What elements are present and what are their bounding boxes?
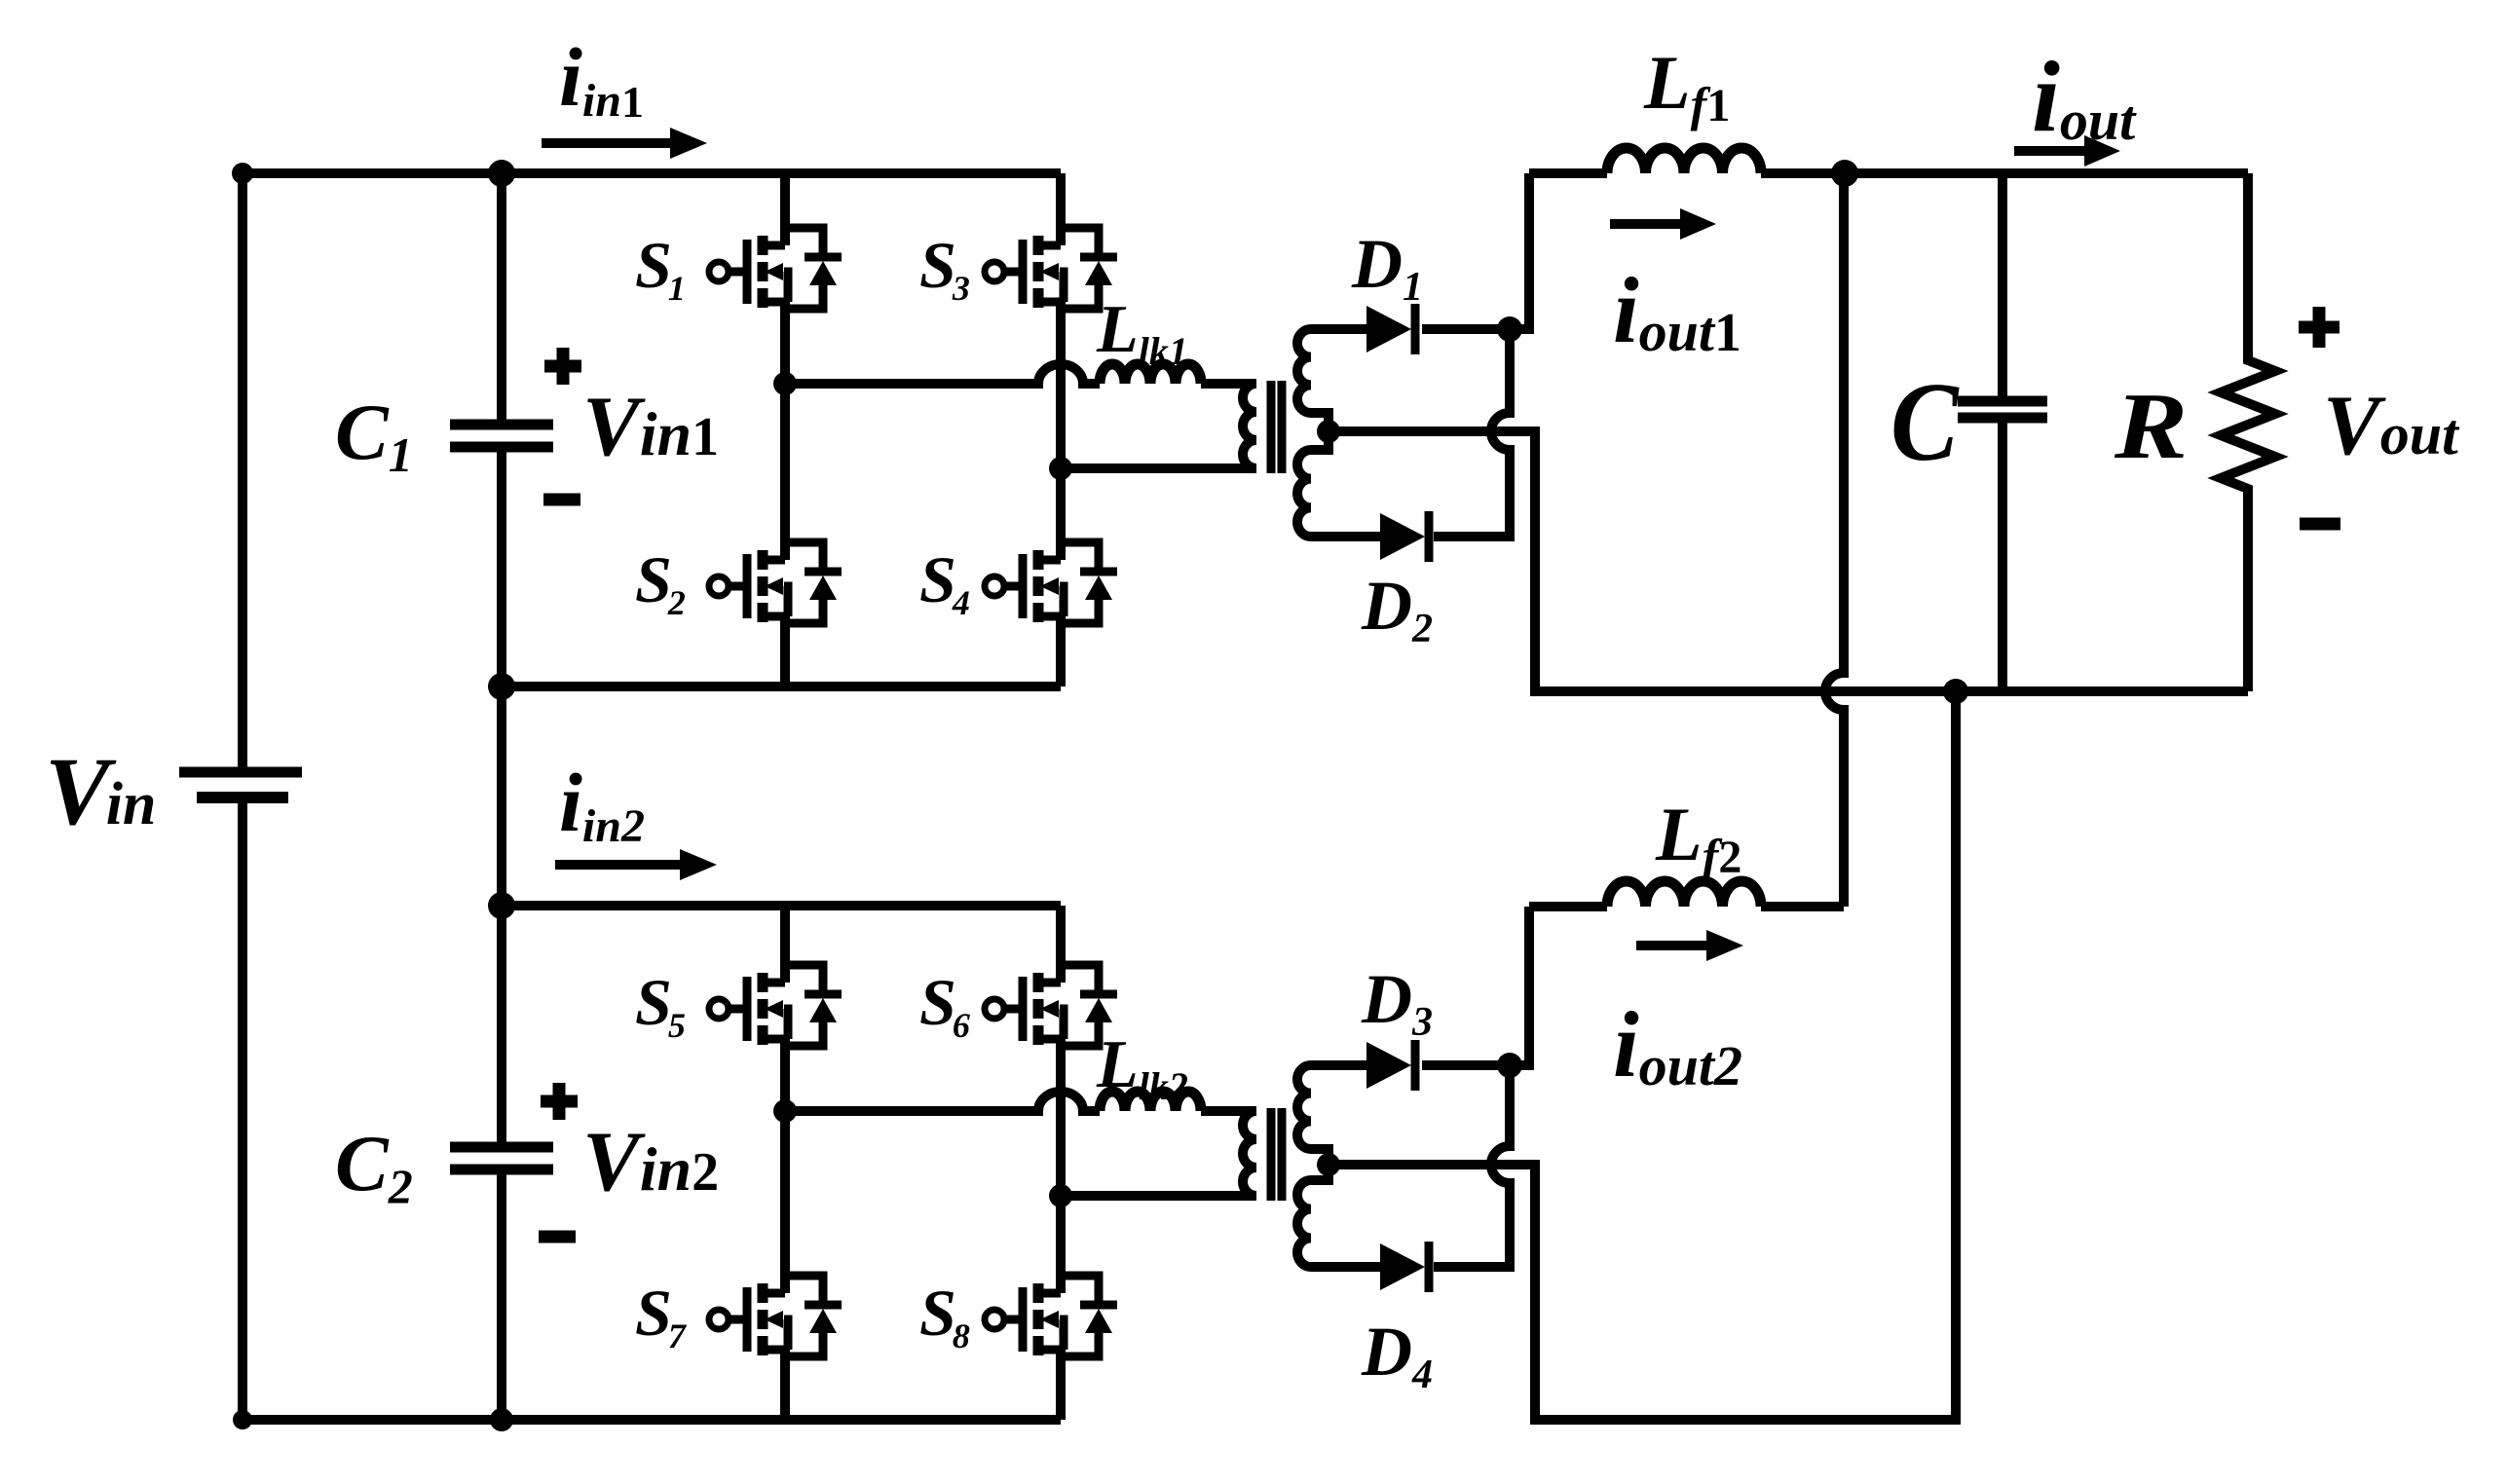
wire center tap2 return to output rail: [1329, 691, 1956, 1420]
node C1 bottom bridge1: [488, 673, 515, 700]
wire bridge2 midleft with hop: [785, 1092, 1100, 1111]
wire left rail top and input top rail: [243, 173, 1061, 769]
transformer T2 core: [1271, 1108, 1282, 1201]
wire D1 to junction and up to Lf1: [1422, 173, 1529, 329]
transformer T1 secondary bottom winding: [1297, 427, 1329, 537]
minus C2: [539, 1231, 576, 1243]
wire D2 up to D1 junction with hop: [1434, 329, 1510, 537]
wire secondary1 bottom to D2: [1311, 532, 1380, 541]
transformer T1 primary winding: [1243, 384, 1256, 468]
wire bridge1 left leg: [780, 173, 790, 686]
wire bridge2 right leg: [1056, 906, 1066, 1420]
transformer T2 secondary bottom winding: [1297, 1163, 1329, 1267]
wire Llk1 to transformer: [1201, 379, 1256, 389]
diode D4: [1380, 1242, 1429, 1292]
node output return rail: [1943, 679, 1968, 704]
wire secondary2 bottom to D4: [1311, 1262, 1380, 1272]
transistor Q8 S8: [985, 1276, 1117, 1356]
wire Lf2 output vertical with hop: [1825, 173, 1844, 907]
wire left rail bottom and input bottom rail: [243, 800, 1061, 1420]
wire center tap1 to output return rail: [1329, 431, 2248, 691]
node D1 cathode junction: [1497, 316, 1522, 342]
transistor Q4 S4: [985, 542, 1117, 623]
inductor Lf1: [1607, 148, 1761, 173]
wire D3 to junction and up to Lf2: [1422, 907, 1529, 1065]
wire bridge2 midright to primary: [1061, 1191, 1256, 1201]
wire Lf2 to output vertical: [1761, 902, 1844, 911]
transistor Q6 S6: [985, 965, 1117, 1046]
battery Vin: [179, 772, 302, 798]
node bridge2 left mid: [773, 1099, 797, 1123]
wire bridge1 right leg: [1056, 173, 1066, 686]
transformer T2 secondary top winding: [1297, 1065, 1329, 1170]
node C2 top bridge2: [488, 892, 515, 919]
transistor Q7 S7: [709, 1276, 842, 1356]
node C2 bottom: [490, 1408, 513, 1431]
diode D3: [1366, 1040, 1415, 1091]
inductor Llk1: [1100, 364, 1201, 384]
minus C1: [543, 494, 580, 506]
wire bridge1 midleft with hop: [785, 364, 1100, 384]
arrow i_in1: [542, 138, 672, 148]
capacitor C: [1958, 401, 2047, 418]
capacitor C2: [450, 1147, 553, 1169]
arrow i_out2: [1636, 941, 1708, 950]
wire bridge1 midright to primary: [1061, 464, 1256, 473]
transformer T1 core: [1271, 381, 1282, 473]
wire bridge2 top: [502, 901, 1061, 910]
inductor Llk2: [1100, 1092, 1201, 1111]
wire bridge1 bottom: [502, 682, 1061, 691]
arrow i_out: [2014, 146, 2086, 156]
node bridge1 left mid: [773, 372, 797, 395]
node output top: [1831, 160, 1858, 187]
resistor R branch with zigzag: [2221, 173, 2275, 691]
transistor Q5 S5: [709, 965, 842, 1046]
svg-text:C: C: [1890, 359, 1960, 484]
capacitor C1: [450, 425, 553, 447]
transistor Q3 S3: [985, 228, 1117, 309]
node T1 center tap: [1317, 420, 1340, 443]
node input top left: [232, 163, 253, 184]
node bridge2 right mid: [1049, 1184, 1072, 1207]
plus C2: [541, 1083, 578, 1120]
wire C rail: [497, 173, 506, 1420]
transistor Q2 S2: [709, 542, 842, 623]
wire D4 up to D3 junction with hop: [1434, 1065, 1510, 1267]
minus Vout: [2300, 518, 2340, 531]
svg-text:R: R: [2114, 373, 2188, 479]
transformer T2 primary winding: [1243, 1111, 1256, 1196]
wire Lf2 top left: [1529, 902, 1607, 911]
node D3 cathode junction: [1497, 1053, 1522, 1078]
node C1 top: [488, 160, 515, 187]
wire Lf1 top left: [1529, 168, 1607, 178]
wire capacitor C branch: [1998, 173, 2007, 691]
diode D1: [1366, 304, 1415, 354]
transformer T1 secondary top winding: [1297, 329, 1329, 434]
node T2 center tap: [1317, 1153, 1340, 1176]
wire Llk2 to transformer: [1201, 1106, 1256, 1116]
inductor Lf2: [1607, 881, 1761, 907]
plus C1: [544, 348, 581, 385]
wire secondary1 top to D1: [1311, 324, 1366, 334]
transistor Q1 S1: [709, 228, 842, 309]
arrow i_in2: [555, 860, 682, 870]
wire bridge2 left leg: [780, 906, 790, 1420]
arrow i_out1: [1610, 219, 1682, 229]
node input bottom left: [233, 1410, 252, 1429]
wire secondary2 top to D3: [1311, 1060, 1366, 1070]
wire output top: [1761, 168, 2248, 178]
plus Vout: [2299, 307, 2340, 348]
diode D2: [1380, 511, 1429, 562]
node bridge1 right mid: [1049, 457, 1072, 480]
